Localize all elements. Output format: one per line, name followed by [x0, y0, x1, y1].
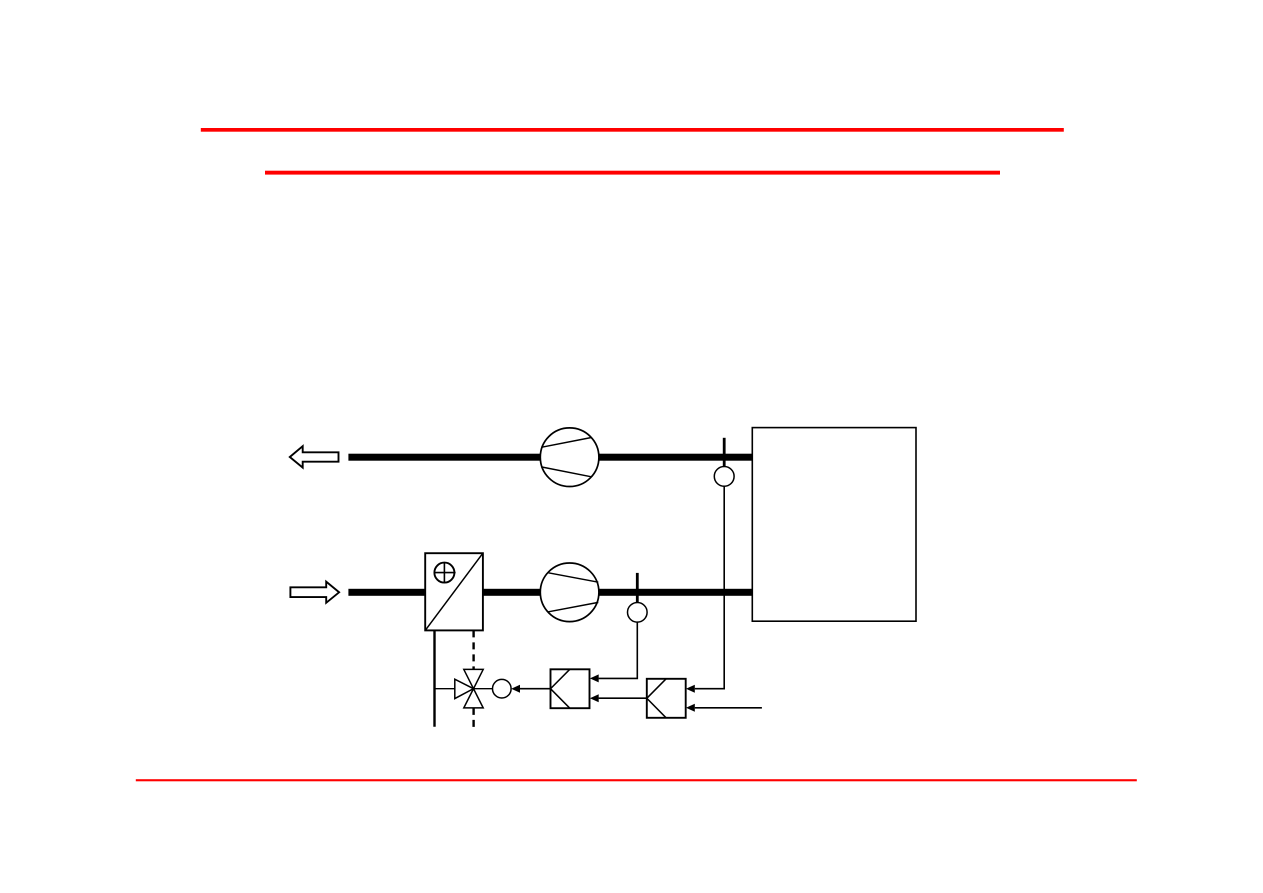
- reference input wire: [695, 707, 762, 709]
- supply duct pipe (bottom thick line): [348, 589, 753, 596]
- 3-way valve left port triangle: [455, 679, 474, 698]
- heating coil box: [425, 553, 483, 630]
- controller C2 symbol: [647, 679, 666, 718]
- supply fan circle: [540, 563, 599, 622]
- coil return dashed pipe above valve: [472, 630, 474, 669]
- valve inlet connector: [435, 688, 456, 690]
- 3-way valve bottom port triangle: [464, 689, 483, 708]
- 3-way valve top port triangle: [464, 669, 483, 688]
- sensor B2 bulb: [628, 603, 648, 623]
- room box: [752, 428, 916, 622]
- supply air block arrow (points right): [290, 582, 339, 603]
- heating coil diagonal: [426, 554, 483, 630]
- exhaust fan circle: [540, 428, 599, 487]
- coil damper symbol circle: [434, 563, 454, 583]
- red rule top: [201, 128, 1064, 132]
- signal wire B2 to controller C1: [599, 622, 638, 678]
- wire C1 to actuator: [520, 688, 551, 690]
- arrowhead into C2 lower input: [686, 704, 695, 712]
- coil damper symbol cross: [434, 572, 455, 574]
- exhaust fan blade lines: [541, 438, 591, 448]
- valve actuator circle: [493, 679, 512, 698]
- sensor B1 stem (tick through top duct): [723, 438, 726, 467]
- sensor B1 bulb: [714, 467, 734, 487]
- controller C2 box: [647, 679, 686, 718]
- arrowhead into actuator: [511, 685, 520, 693]
- signal wire B1 to controller C2: [695, 486, 724, 688]
- supply fan blade lines: [548, 573, 598, 582]
- red rule second: [265, 171, 1000, 175]
- hot water supply pipe (solid vertical): [433, 630, 435, 726]
- sensor B2 stem (tick through bottom duct): [636, 573, 639, 603]
- red rule bottom: [136, 779, 1137, 781]
- controller C1 symbol: [551, 669, 570, 708]
- exhaust duct pipe (top thick line): [348, 454, 753, 461]
- controller C1 box: [551, 669, 590, 708]
- exhaust air block arrow (points left): [290, 446, 339, 467]
- dashed pipe below valve: [472, 708, 474, 728]
- arrowhead into C1 upper input: [590, 674, 599, 682]
- wire C2 to C1: [599, 697, 647, 699]
- actuator link line: [474, 688, 493, 690]
- arrowhead into C1 lower input: [590, 694, 599, 702]
- arrowhead into C2 upper input: [686, 685, 695, 693]
